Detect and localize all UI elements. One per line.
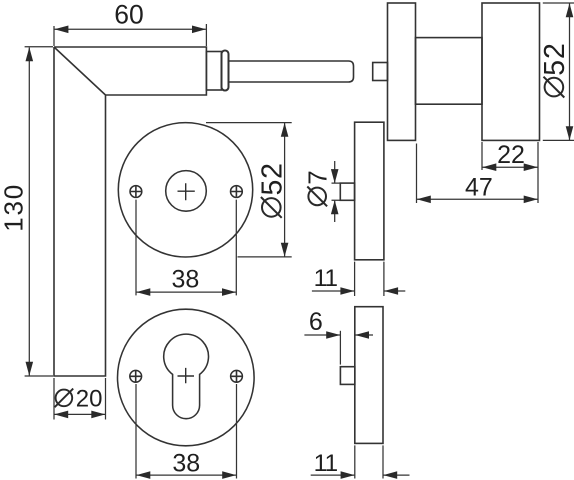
handle front view top right (373, 3, 540, 140)
svg-text:60: 60 (114, 0, 143, 30)
dim Ø52 mid line (284, 123, 286, 257)
neck rect (416, 38, 483, 105)
key rosette front view (118, 309, 255, 446)
svg-text:22: 22 (497, 141, 525, 169)
dim 11 bottom arrows (341, 471, 398, 479)
dim 38 mid line (136, 291, 236, 293)
dim 38 mid arrows (136, 288, 236, 296)
dim Ø7 arrow lines (334, 161, 336, 222)
lever handle side view outline (54, 47, 206, 376)
grip end rect (482, 3, 540, 140)
svg-text:11: 11 (314, 450, 338, 477)
dim Ø52 right line (569, 3, 571, 140)
svg-text:38: 38 (172, 450, 200, 478)
screw boss bottom (340, 367, 354, 385)
dim 38 bottom arrows (136, 471, 236, 479)
handle neck collar (206, 52, 221, 91)
dim Ø52 mid extension lines (206, 123, 292, 257)
dim 38 mid extension lines (136, 200, 236, 296)
screw right bottom (231, 370, 243, 382)
euro cross (178, 368, 195, 383)
dim 130 line (28, 48, 30, 376)
dim text Ø52 mid (257, 162, 289, 218)
dim text Ø7 (302, 170, 332, 206)
dim Ø7 extension ticks (332, 183, 341, 200)
dim 60 extension lines (54, 24, 206, 46)
dim 11 mid extension lines (355, 262, 384, 296)
dim 11 bottom arrow lines (311, 474, 410, 476)
svg-text:47: 47 (465, 173, 493, 201)
dim 6 arrows (326, 331, 369, 339)
dim Ø52 right arrows (566, 3, 574, 140)
svg-text:52: 52 (257, 162, 289, 195)
dim 130 extension lines (25, 47, 53, 376)
svg-text:38: 38 (171, 265, 199, 293)
rosette side rect bottom (355, 307, 383, 444)
svg-text:6: 6 (309, 308, 323, 336)
spindle tab (373, 63, 388, 81)
dim 6 arrow lines (304, 334, 373, 336)
dim 60 arrows (54, 26, 206, 34)
svg-text:130: 130 (0, 183, 28, 232)
svg-text:11: 11 (314, 265, 338, 292)
dim Ø20 line (54, 413, 106, 415)
svg-text:52: 52 (539, 42, 571, 75)
dim Ø20 extension lines (54, 378, 106, 420)
svg-text:20: 20 (76, 385, 103, 412)
dim Ø52 mid arrows (281, 123, 289, 257)
dim 6 extension line (339, 331, 341, 365)
dim 11 mid arrows (340, 287, 398, 295)
dim 130 arrows (26, 47, 34, 375)
screw boss mid (340, 183, 354, 200)
dim 47 arrows (417, 196, 538, 204)
svg-text:7: 7 (302, 170, 332, 184)
hub cross (178, 183, 195, 200)
screw left bottom (130, 370, 142, 382)
rosette circle (118, 309, 255, 446)
lever rosette front view (118, 123, 252, 257)
dim 11 mid arrow lines (312, 290, 405, 292)
dim 38 bottom line (136, 474, 236, 476)
dim 11 bottom extension lines (355, 445, 383, 478)
dim Ø52 right extension lines (543, 3, 574, 140)
dim 22 line (482, 166, 537, 168)
dim Ø7 arrows (331, 169, 339, 214)
euro profile cylinder cutout (164, 334, 209, 419)
screw left (130, 186, 142, 198)
rosette circle (118, 123, 252, 257)
handle spindle shaft (228, 61, 354, 82)
dim 22 extension lines (482, 142, 538, 203)
dim 60 line (55, 28, 206, 30)
hub circle (166, 171, 207, 212)
dim 47 line (417, 198, 538, 200)
handle rose ring (222, 51, 229, 91)
dim text Ø52 right (539, 42, 571, 97)
dim 38 bottom extension lines (136, 384, 237, 479)
dim text Ø20 (55, 385, 103, 412)
rosette side rect (388, 3, 416, 140)
screw right (231, 186, 243, 198)
key rosette side view (340, 307, 383, 444)
dim 22 arrows (482, 163, 537, 171)
lever rosette side view (340, 122, 384, 260)
dim Ø20 arrows (54, 411, 105, 419)
rosette side rect mid (355, 122, 384, 260)
dim 47 extension line (416, 144, 418, 204)
